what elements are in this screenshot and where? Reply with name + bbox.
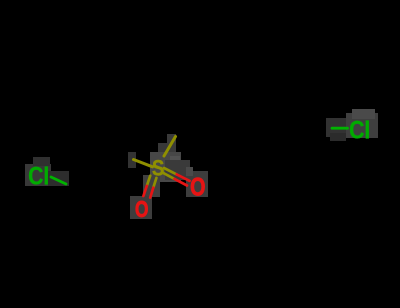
svg-text:S: S <box>152 156 164 181</box>
svg-text:O: O <box>190 173 205 201</box>
svg-text:Cl: Cl <box>349 116 370 144</box>
svg-text:O: O <box>135 198 148 223</box>
svg-text:Cl: Cl <box>28 162 49 190</box>
